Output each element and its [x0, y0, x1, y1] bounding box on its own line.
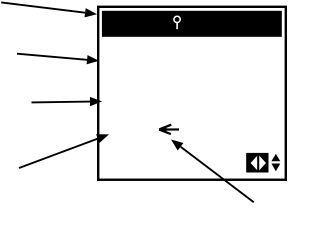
- window border: [98, 7, 286, 180]
- arrow 2 (points to window left edge): [17, 54, 99, 65]
- title bar glyph (circle with stem): [174, 16, 180, 29]
- arrow 5 (long diagonal from bottom-right, points to pointer): [171, 140, 254, 203]
- scroll down triangle: [271, 164, 280, 172]
- title bar: [102, 11, 282, 37]
- arrow 4 (from bottom-left, points up-right into window): [19, 134, 109, 168]
- arrow 1 (top-left, points to title bar / window top): [1, 2, 97, 17]
- arrow 3 (horizontal, points to window border): [32, 97, 103, 106]
- size box (black square with split diamond): [246, 153, 268, 173]
- mouse pointer (small left arrow inside window): [159, 125, 179, 134]
- scroll up triangle: [271, 154, 280, 162]
